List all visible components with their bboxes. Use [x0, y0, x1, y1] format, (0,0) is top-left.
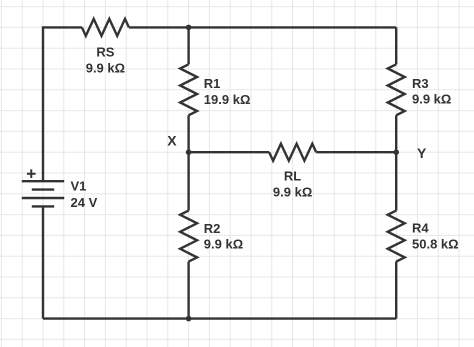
- svg-text:R4: R4: [412, 220, 429, 235]
- wire RL to node Y: [316, 151, 396, 153]
- node junction bottom: [186, 316, 192, 322]
- node junction top: [186, 25, 192, 31]
- battery V1 plates: [22, 181, 64, 206]
- resistor R2: [180, 211, 197, 262]
- node Y: [393, 149, 399, 155]
- svg-text:RL: RL: [284, 169, 301, 184]
- node X: [186, 149, 192, 155]
- wire R3 to node Y: [395, 115, 397, 152]
- resistor RL: [269, 144, 316, 161]
- resistor R3: [388, 64, 405, 115]
- svg-text:9.9 kΩ: 9.9 kΩ: [273, 185, 312, 200]
- resistor RS: [82, 19, 129, 36]
- svg-text:X: X: [167, 133, 177, 149]
- svg-text:9.9 kΩ: 9.9 kΩ: [204, 237, 243, 252]
- resistor R1: [180, 64, 197, 115]
- svg-text:RS: RS: [96, 45, 114, 60]
- wire bottom: bottom-right corner across to bottom-left corner: [43, 317, 396, 319]
- wire R1 to node X: [187, 115, 189, 152]
- svg-text:9.9 kΩ: 9.9 kΩ: [412, 92, 451, 107]
- wire node X to R2: [187, 152, 189, 210]
- wire node Y to R4: [395, 152, 397, 210]
- svg-text:Y: Y: [417, 145, 427, 161]
- wire middle branch top: top node down to R1: [187, 27, 189, 64]
- wire right top: top-right corner down to R3: [395, 27, 397, 64]
- wire R4 to bottom-right corner: [395, 262, 397, 319]
- svg-text:R2: R2: [204, 221, 221, 236]
- svg-text:R3: R3: [412, 76, 429, 91]
- wire top: RS to top-right corner: [129, 26, 396, 28]
- battery plus sign: [27, 169, 36, 178]
- svg-text:9.9 kΩ: 9.9 kΩ: [86, 61, 125, 76]
- wire R2 to bottom junction: [187, 262, 189, 319]
- svg-text:50.8 kΩ: 50.8 kΩ: [412, 237, 459, 252]
- wire bottom-left: battery bottom plate down to bottom wire: [42, 206, 44, 318]
- svg-text:24 V: 24 V: [71, 195, 98, 210]
- svg-text:V1: V1: [71, 179, 87, 194]
- svg-text:R1: R1: [204, 76, 221, 91]
- svg-text:19.9 kΩ: 19.9 kΩ: [204, 92, 251, 107]
- wire left: battery top plate up to top-left corner, across to RS: [43, 27, 82, 181]
- wire node X to RL: [189, 151, 270, 153]
- resistor R4: [388, 211, 405, 262]
